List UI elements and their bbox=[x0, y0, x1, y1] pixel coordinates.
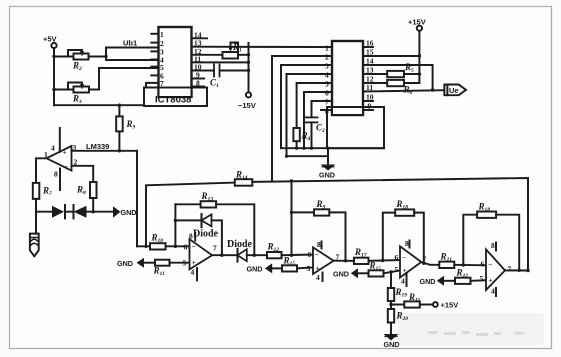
svg-text:+: + bbox=[316, 264, 320, 273]
feedback R18b loop bbox=[463, 212, 519, 271]
U2 pin 9 stub bbox=[363, 109, 373, 111]
ground bus 2 bbox=[287, 155, 329, 157]
node R18b left bbox=[462, 263, 465, 266]
node R3 left bbox=[52, 88, 55, 91]
svg-text:−: − bbox=[192, 242, 196, 251]
ground G7 bbox=[384, 334, 399, 341]
U2 pin 16 stub bbox=[363, 46, 373, 48]
U1 pin 8 stub bbox=[192, 86, 205, 88]
svg-text:6: 6 bbox=[184, 242, 188, 251]
riser top to R14 line bbox=[291, 181, 293, 213]
node on R14 line bbox=[290, 179, 293, 182]
svg-text:5: 5 bbox=[183, 259, 187, 268]
U2 pin 15 wire to +15V bbox=[363, 55, 419, 57]
wire R2 jog to pin 4 bbox=[106, 57, 159, 61]
svg-text:−: − bbox=[315, 250, 319, 259]
U1 pin 7 wire to label box bbox=[146, 83, 159, 88]
diode D3 feedback bbox=[175, 214, 222, 255]
node +15V tap bbox=[389, 303, 392, 306]
feedback R18a loop bbox=[383, 209, 424, 263]
node R5 right bbox=[418, 72, 421, 75]
svg-text:2: 2 bbox=[160, 39, 164, 48]
svg-text:8: 8 bbox=[491, 241, 495, 250]
svg-text:Diode: Diode bbox=[193, 229, 219, 240]
wire LM339 out left bbox=[36, 158, 47, 183]
resistor R22 bbox=[444, 278, 486, 284]
svg-text:8: 8 bbox=[196, 79, 200, 88]
ground arrow G1 bbox=[113, 206, 121, 217]
+15V terminal top bbox=[417, 26, 422, 83]
svg-text:7: 7 bbox=[160, 79, 164, 88]
svg-text:6: 6 bbox=[325, 89, 329, 98]
wire A3 out bbox=[421, 262, 439, 265]
feedback loop left vertical bbox=[174, 204, 176, 246]
svg-text:14: 14 bbox=[366, 57, 374, 66]
svg-text:6: 6 bbox=[395, 253, 399, 262]
svg-text:2: 2 bbox=[325, 53, 329, 62]
svg-text:GND: GND bbox=[319, 171, 335, 180]
svg-text:5: 5 bbox=[325, 80, 329, 89]
node diode fb tap bbox=[174, 219, 177, 222]
resistor R9 bbox=[116, 105, 123, 151]
svg-text:−: − bbox=[64, 162, 68, 171]
node R2 left bbox=[52, 55, 55, 58]
svg-text:5: 5 bbox=[160, 63, 164, 72]
svg-text:10: 10 bbox=[366, 93, 374, 102]
svg-text:7: 7 bbox=[213, 243, 217, 252]
wire R3 to pin5 bbox=[99, 68, 159, 90]
node pin12 rail bbox=[247, 53, 250, 56]
resistor R19 bbox=[388, 272, 394, 309]
ground arrow G2 bbox=[137, 258, 145, 268]
svg-text:Ub1: Ub1 bbox=[123, 39, 137, 48]
U1 pin 3 bbox=[151, 50, 158, 52]
wire R2 to pin4 bbox=[106, 48, 159, 57]
U1 label box bbox=[144, 88, 207, 107]
svg-text:+: + bbox=[489, 275, 493, 284]
wire down to opamp A1 input row bbox=[136, 151, 138, 247]
U1 pin 13 wire to U2 pin1 bbox=[192, 46, 322, 48]
U1 pin 9 stub bbox=[192, 78, 205, 80]
node DAC sum bbox=[290, 254, 293, 257]
node R14 tap bbox=[144, 245, 147, 248]
opamp A1 input row bbox=[137, 245, 190, 247]
U1 pin 1 bbox=[151, 33, 158, 35]
U2 pin 12 wire to R6 bbox=[363, 82, 387, 84]
U2 right pin numbers bbox=[366, 39, 374, 111]
U2 pin 14 wire outer bbox=[363, 65, 433, 90]
ground bus 1 bbox=[281, 147, 384, 149]
svg-text:7: 7 bbox=[508, 265, 512, 274]
node pin11 rail bbox=[247, 61, 250, 64]
svg-text:+5V: +5V bbox=[43, 35, 57, 44]
resistor R12 bbox=[267, 252, 282, 258]
node Ub1 bbox=[104, 55, 107, 58]
U2 pin 4 nest bbox=[287, 74, 333, 156]
resistor R17 bbox=[354, 258, 400, 264]
U1 right pin numbers bbox=[194, 30, 202, 87]
+5V terminal bbox=[51, 43, 56, 105]
svg-text:Ue: Ue bbox=[449, 86, 459, 95]
svg-text:4: 4 bbox=[325, 71, 329, 80]
svg-text:4: 4 bbox=[316, 273, 320, 282]
feedback R9b riser bbox=[329, 212, 345, 260]
node diodes R8 bbox=[92, 210, 95, 213]
capacitor C2 bbox=[305, 117, 318, 148]
wire R12 to A2 bbox=[282, 254, 314, 257]
U2 pin 6 nest bbox=[304, 92, 332, 148]
capacitor C1 bbox=[214, 65, 249, 77]
resistor R23 to +15V bbox=[391, 301, 438, 307]
node R9 bottom bbox=[118, 149, 121, 152]
node diode loop bbox=[220, 254, 223, 257]
svg-text:GND: GND bbox=[384, 340, 400, 349]
resistor R7 bbox=[33, 183, 40, 212]
svg-text:11: 11 bbox=[366, 83, 373, 92]
U2 left pin numbers bbox=[325, 44, 329, 116]
wire R9b to riser bbox=[292, 211, 315, 213]
svg-text:5: 5 bbox=[480, 274, 484, 283]
svg-text:GND: GND bbox=[121, 208, 137, 217]
svg-text:GND: GND bbox=[333, 270, 349, 279]
U1 pin 11 wire to -15V rail bbox=[192, 61, 249, 63]
svg-text:8: 8 bbox=[317, 240, 321, 249]
resistor R9b bbox=[314, 209, 329, 215]
node outer fb bbox=[526, 269, 529, 272]
node R9b riser bbox=[290, 211, 293, 214]
U1 pin 4 bbox=[151, 59, 158, 61]
bus nodes bbox=[285, 147, 330, 158]
op-amp U3 LM339 bbox=[44, 128, 78, 190]
svg-text:LM339: LM339 bbox=[86, 142, 109, 151]
resistor R15 bbox=[272, 265, 313, 271]
op-amp A3 bbox=[395, 239, 427, 286]
svg-text:Diode: Diode bbox=[227, 239, 253, 250]
op-amp A2 bbox=[307, 240, 340, 282]
node A3 out bbox=[422, 262, 425, 265]
svg-text:6: 6 bbox=[308, 250, 312, 259]
svg-text:−15V: −15V bbox=[238, 101, 256, 110]
op-amp A1 bbox=[183, 232, 218, 281]
svg-text:8: 8 bbox=[325, 107, 329, 116]
svg-text:GND: GND bbox=[420, 277, 436, 286]
svg-text:1: 1 bbox=[160, 30, 164, 39]
wire LM339 plus input row bbox=[72, 150, 138, 152]
node pin10 rail bbox=[247, 69, 250, 72]
diode D2 bbox=[65, 205, 113, 218]
svg-text:GND: GND bbox=[247, 265, 263, 274]
node R13 loop bbox=[253, 254, 256, 257]
output flag Ue bbox=[444, 85, 466, 96]
node pin15 bbox=[418, 54, 421, 57]
node R19 tap bbox=[389, 270, 392, 273]
svg-text:6: 6 bbox=[481, 260, 485, 269]
U1 pin 5 bbox=[151, 66, 158, 68]
svg-text:4: 4 bbox=[491, 287, 495, 296]
resistor R6 bbox=[387, 80, 419, 86]
svg-text:8: 8 bbox=[405, 239, 409, 248]
U2 pin 2 nest bbox=[272, 56, 332, 181]
svg-text:9: 9 bbox=[368, 102, 372, 111]
potentiometer R1 bbox=[223, 43, 249, 59]
U1 pin 6 bbox=[151, 74, 158, 76]
wire LM339 pin2 to R8 bbox=[72, 166, 94, 182]
potentiometer R3 bbox=[54, 83, 99, 93]
U2 pin 5 nest with R4 bbox=[297, 83, 332, 128]
svg-text:15: 15 bbox=[366, 48, 374, 57]
svg-text:5: 5 bbox=[395, 265, 399, 274]
svg-text:7: 7 bbox=[325, 98, 329, 107]
op-amp A4 bbox=[480, 241, 512, 296]
ground G6 drop bbox=[321, 148, 336, 170]
IC U2 body bbox=[332, 41, 363, 115]
U2 pin 3 nest bbox=[281, 65, 332, 148]
node R9 top bbox=[118, 104, 121, 107]
svg-text:4: 4 bbox=[191, 268, 195, 277]
resistor R20 bbox=[388, 309, 394, 334]
riser to R14 line bbox=[291, 212, 293, 255]
wire A2 out bbox=[334, 260, 354, 262]
wire +5V rail bottom bbox=[54, 104, 144, 106]
-15V rail bbox=[246, 43, 251, 98]
svg-text:16: 16 bbox=[366, 39, 374, 48]
U2 pin 13 wire to R5 bbox=[363, 73, 387, 75]
ground arrow G5 bbox=[437, 276, 444, 286]
svg-text:3: 3 bbox=[325, 62, 329, 71]
node outer drop bbox=[431, 88, 434, 91]
svg-text:4: 4 bbox=[51, 144, 55, 153]
resistor R10 bbox=[150, 243, 166, 249]
watermark bbox=[398, 313, 544, 345]
U1 left pin numbers bbox=[160, 30, 164, 88]
input flag Ui bbox=[30, 212, 39, 257]
svg-text:+15V: +15V bbox=[408, 18, 426, 27]
resistor R8 bbox=[90, 182, 97, 212]
resistor R11 bbox=[144, 260, 190, 266]
ground arrow G3 bbox=[265, 263, 272, 273]
svg-text:+: + bbox=[63, 148, 67, 157]
resistor R13 feedback bbox=[175, 201, 254, 255]
svg-text:5: 5 bbox=[307, 264, 311, 273]
svg-text:+: + bbox=[403, 266, 407, 275]
node A4 fb bbox=[518, 269, 521, 272]
U1 pin 2 bbox=[151, 42, 158, 44]
U1 pin 14 stub bbox=[192, 37, 208, 39]
wire A4 out bbox=[505, 269, 528, 271]
svg-text:GND: GND bbox=[117, 259, 133, 268]
svg-text:−: − bbox=[402, 253, 406, 262]
ground arrow G4 bbox=[351, 268, 358, 278]
svg-text:ICT8038: ICT8038 bbox=[155, 95, 191, 106]
resistor R16 bbox=[358, 270, 400, 276]
U2 pin 8 stub bbox=[321, 109, 332, 111]
svg-text:4: 4 bbox=[401, 277, 405, 286]
resistor R21 bbox=[439, 262, 486, 268]
IC U1 ICT8038 body bbox=[159, 27, 192, 97]
svg-text:−: − bbox=[488, 260, 492, 269]
U1 pin 12 wire to R1 bbox=[192, 54, 223, 56]
node A2 fb bbox=[344, 259, 347, 262]
node R13 tap bbox=[174, 245, 177, 248]
U1 pin 10 wire to C1 bbox=[192, 70, 215, 72]
wire A1 output bbox=[212, 254, 237, 256]
resistor R14 long feedback bbox=[146, 178, 528, 271]
svg-text:+: + bbox=[192, 258, 196, 267]
resistor R5 bbox=[387, 71, 419, 77]
potentiometer R2 bbox=[54, 50, 106, 60]
U2 pin 1 bbox=[321, 46, 332, 48]
U2 label box bbox=[327, 107, 384, 148]
U2 pin 10 stub bbox=[363, 100, 373, 102]
svg-text:+15V: +15V bbox=[441, 301, 459, 310]
svg-text:1: 1 bbox=[325, 44, 329, 53]
diode D1 bbox=[36, 205, 65, 218]
U2 pin 11 wire to Ue bbox=[363, 90, 444, 91]
node R18a left bbox=[381, 259, 384, 262]
U2 pin 7 nest with C2 bbox=[312, 101, 333, 117]
resistor R4 bbox=[293, 128, 299, 148]
svg-text:13: 13 bbox=[366, 66, 374, 75]
svg-text:8: 8 bbox=[54, 170, 58, 179]
diode D4 bbox=[238, 249, 268, 262]
